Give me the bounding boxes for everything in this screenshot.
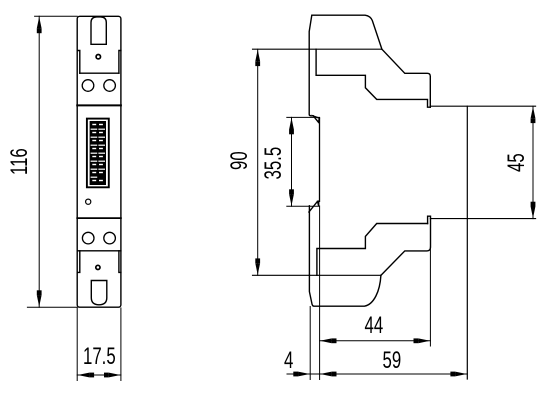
side view: body bottom edge + 90 extension line	[253, 274, 382, 276]
side view: front panel top edge + 45 extension line	[430, 105, 535, 107]
dimension line 35.5	[291, 117, 293, 206]
extension line: 17.5 right	[120, 308, 122, 381]
extension line: 44 right	[429, 247, 431, 346]
extension line: 4 left (tab face)	[309, 307, 311, 380]
LED indicator	[86, 199, 91, 204]
arrowheads 90	[255, 50, 260, 62]
DIN rail slot face	[319, 118, 321, 201]
svg-text:116: 116	[6, 148, 33, 175]
arrowheads 35.5	[289, 118, 294, 130]
side view: lower rear face	[308, 206, 310, 275]
arrowhead 59 right (points right to panel face)	[455, 372, 467, 377]
side view: top terminal recess inner contour	[316, 49, 430, 107]
dimension line 45	[532, 106, 534, 218]
arrowhead 59 left / 4 right (points left to slot face)	[320, 372, 332, 377]
front view body outline	[77, 16, 121, 307]
svg-text:45: 45	[503, 153, 530, 172]
side view: front panel bottom edge + 45 extension line	[431, 218, 536, 220]
top terminal screw right	[104, 80, 116, 92]
top sealing slot (arched)	[91, 17, 106, 44]
DIN rail bottom hook	[309, 201, 319, 212]
extension line: 116 top	[35, 15, 78, 17]
svg-text:59: 59	[383, 347, 402, 374]
bottom cover screw	[96, 265, 100, 269]
arrowheads 45	[531, 107, 536, 119]
arrowheads 116	[37, 17, 42, 29]
side view: bottom terminal recess inner contour	[317, 224, 428, 276]
LCD display bezel	[87, 119, 109, 188]
front face upper edge (bottom section)	[77, 217, 121, 219]
svg-text:4: 4	[284, 347, 293, 374]
extension line: 35.5 top	[287, 116, 320, 118]
svg-text:44: 44	[365, 312, 384, 339]
arrowheads 44	[320, 338, 332, 343]
side view: bottom notch	[428, 216, 431, 223]
svg-text:35.5: 35.5	[260, 147, 287, 180]
LCD display digits	[90, 121, 106, 185]
top terminal cover right tick	[119, 51, 121, 74]
side view: DIN rail slot rear face	[309, 49, 313, 116]
extension line: 116 bottom	[27, 306, 77, 308]
bottom terminal screw right	[104, 232, 116, 244]
arrowhead 4 (points right to tab face)	[298, 372, 310, 377]
extension line: 17.5 left	[76, 308, 78, 381]
side view: front panel face + 59 extension line	[466, 106, 468, 379]
bottom sealing slot (arched)	[91, 281, 107, 305]
DIN rail top hook	[313, 116, 319, 122]
top terminal screw left	[82, 80, 94, 92]
extension line: 35.5 bottom	[287, 205, 320, 207]
bottom terminal cover right side	[119, 251, 121, 273]
svg-text:17.5: 17.5	[83, 343, 116, 370]
side view: top sealing tab	[309, 15, 382, 49]
dimension line 17.5	[77, 374, 121, 376]
dimension line 44	[320, 340, 431, 342]
side view: bottom sealing tab	[309, 275, 381, 306]
side view: bottom terminal cover outer slope	[381, 219, 431, 276]
arrowheads 17.5	[78, 373, 90, 378]
bottom terminal screw left	[82, 232, 94, 244]
dimension line 116	[38, 16, 40, 307]
terminal block lower edge (top section)	[77, 104, 121, 106]
side view: body top edge + 90 extension line	[253, 48, 382, 50]
extension line: 4/44/59 shared (slot face)	[319, 206, 321, 380]
top terminal cover left tick	[77, 51, 80, 74]
side view: top terminal cover outer slope	[382, 49, 430, 107]
terminal block lower edge (bottom section)	[77, 250, 121, 252]
dimension line 90	[257, 49, 259, 275]
dimension line 59 and 4	[287, 373, 467, 375]
bottom terminal cover left side	[77, 251, 80, 273]
top terminal cover bottom edge	[80, 72, 119, 74]
svg-text:90: 90	[226, 151, 253, 170]
top cover screw	[96, 55, 100, 59]
